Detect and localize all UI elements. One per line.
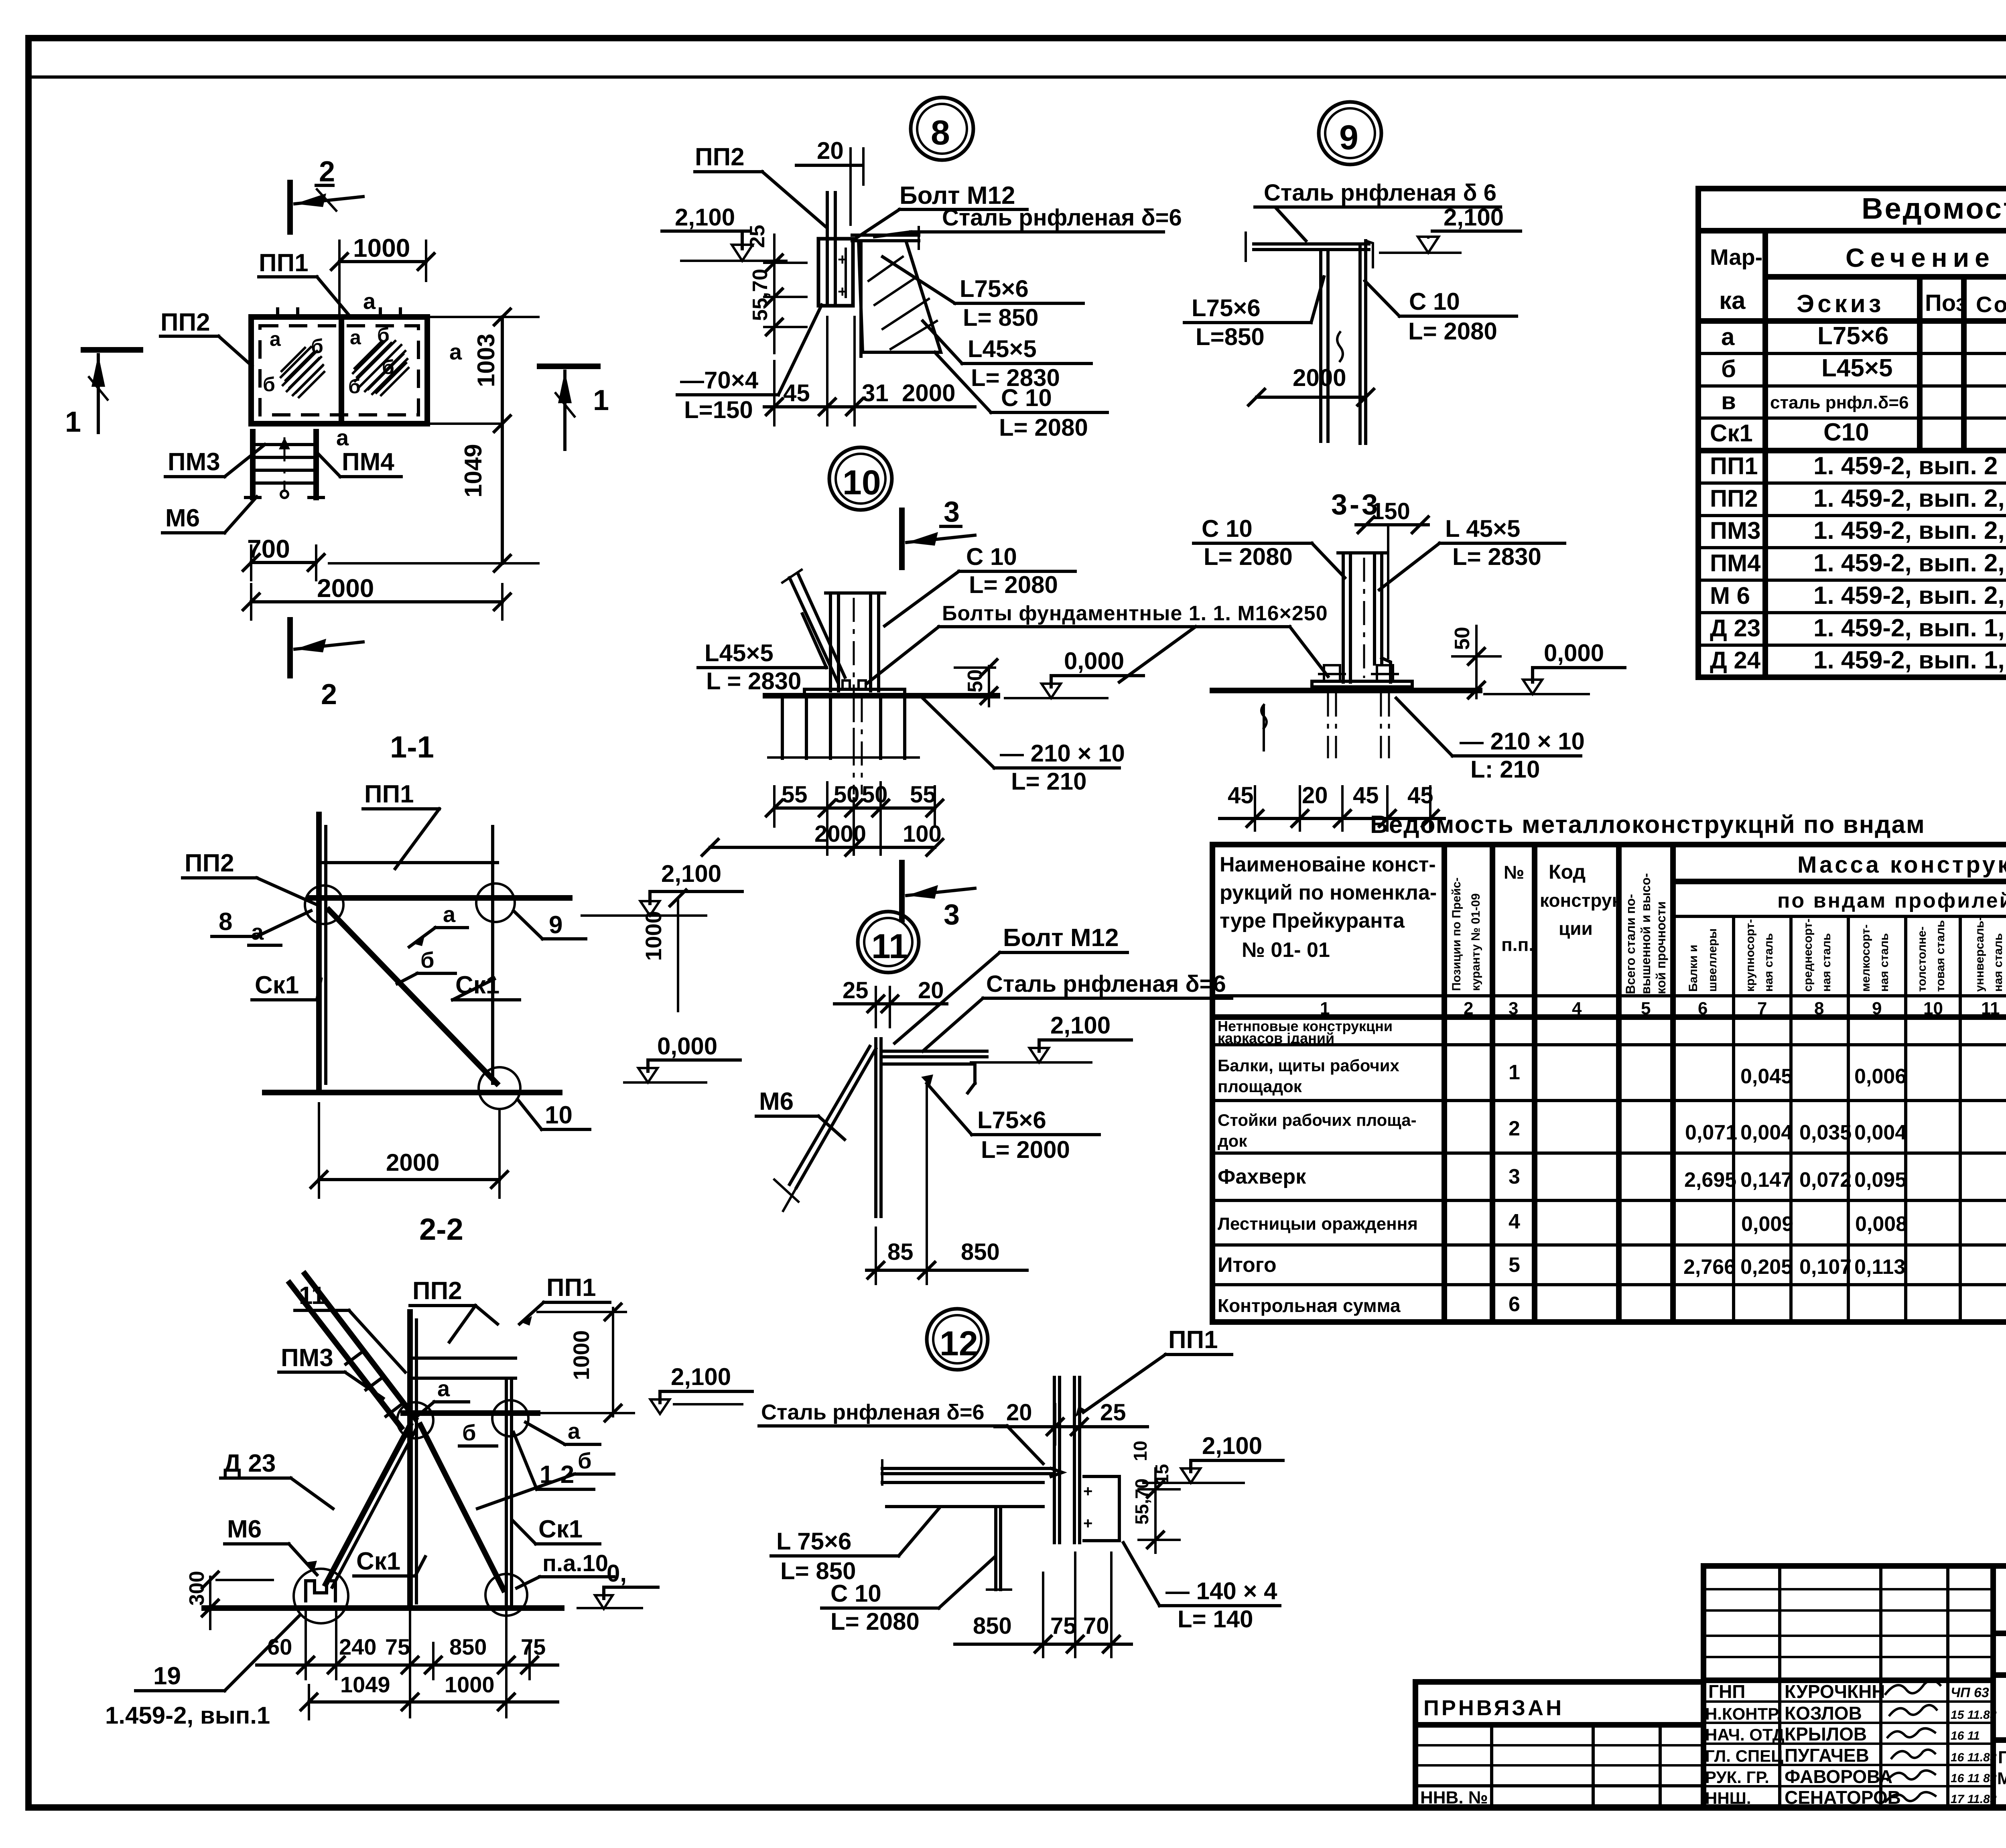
svg-text:10: 10 <box>1923 999 1943 1018</box>
svg-text:каркасов іданий: каркасов іданий <box>1218 1030 1334 1046</box>
detail 9 <box>1184 102 1521 443</box>
header split lines <box>1765 274 2006 280</box>
svg-text:12: 12 <box>940 1324 978 1363</box>
vertical post <box>1053 1377 1056 1543</box>
svg-text:Состав: Состав <box>1976 292 2006 317</box>
data row lines <box>1212 1043 2006 1046</box>
svg-text:куранту № 01-09: куранту № 01-09 <box>1469 894 1482 991</box>
svg-text:25: 25 <box>746 225 769 248</box>
svg-text:Позиции по Прейс-: Позиции по Прейс- <box>1450 877 1463 991</box>
label ПП2 <box>160 309 252 366</box>
detail 8 <box>662 97 1182 441</box>
svg-text:ПП2: ПП2 <box>412 1277 462 1305</box>
svg-text:L45×5: L45×5 <box>968 335 1037 362</box>
svg-text:31: 31 <box>862 380 889 406</box>
svg-text:2: 2 <box>1464 999 1473 1018</box>
table: Ведомость металлоконструкций по видам профилей <box>1212 811 2006 1322</box>
svg-text:ПП2: ПП2 <box>1710 485 1758 512</box>
svg-text:L75×6: L75×6 <box>960 275 1029 302</box>
svg-text:2000: 2000 <box>902 380 955 406</box>
left box Привязан <box>1415 1682 1703 1807</box>
svg-text:0,004: 0,004 <box>1854 1121 1907 1144</box>
svg-text:ПМ4: ПМ4 <box>1710 550 1761 577</box>
plan top edge bolt ticks <box>278 309 400 318</box>
svg-text:С 10: С 10 <box>1202 515 1253 542</box>
node circles <box>397 1402 433 1438</box>
svg-text:+: + <box>838 251 847 268</box>
svg-text:— 210 × 10: — 210 × 10 <box>1460 728 1585 755</box>
floor plate <box>1254 242 1369 246</box>
svg-text:ции: ции <box>1559 918 1593 939</box>
svg-text:9: 9 <box>549 911 562 939</box>
svg-text:ПМ3: ПМ3 <box>168 448 220 476</box>
extra rung <box>410 1377 516 1380</box>
svg-text:КУРОЧКНН: КУРОЧКНН <box>1785 1681 1885 1702</box>
ground <box>1212 688 1480 693</box>
svg-text:70: 70 <box>1083 1613 1109 1639</box>
svg-text:НАЧ. ОТД: НАЧ. ОТД <box>1705 1725 1785 1744</box>
svg-text:1000: 1000 <box>353 234 410 262</box>
dashed inner <box>853 598 855 754</box>
svg-text:М6: М6 <box>759 1088 794 1115</box>
svg-text:55,70: 55,70 <box>1131 1478 1152 1525</box>
svg-text:ПП1: ПП1 <box>1710 453 1758 479</box>
svg-text:КРЫЛОВ: КРЫЛОВ <box>1785 1724 1867 1744</box>
svg-text:а: а <box>336 425 349 450</box>
svg-text:п.а.10: п.а.10 <box>542 1550 608 1576</box>
svg-text:С 10: С 10 <box>1409 288 1460 315</box>
svg-text:Мар-: Мар- <box>1710 244 1762 270</box>
diagonal М6 <box>796 1049 876 1188</box>
svg-text:1003: 1003 <box>473 334 499 387</box>
section mark 3 bottom <box>899 863 905 920</box>
svg-text:туре Прейкуранта: туре Прейкуранта <box>1220 909 1405 932</box>
svg-text:L= 850: L= 850 <box>963 304 1038 331</box>
svg-text:1. 459-2, вып. 2, лнст 75: 1. 459-2, вып. 2, лнст 75 <box>1813 485 2006 512</box>
svg-text:0,008: 0,008 <box>1855 1212 1907 1236</box>
svg-text:20: 20 <box>1006 1399 1032 1426</box>
svg-text:Ск1: Ск1 <box>1710 420 1753 447</box>
svg-text:55: 55 <box>782 782 808 808</box>
svg-text:10: 10 <box>843 463 881 502</box>
svg-text:№: № <box>1504 862 1524 883</box>
svg-text:ГНП: ГНП <box>1708 1681 1745 1702</box>
svg-text:б: б <box>420 947 434 973</box>
channel bracket right <box>1084 1476 1119 1541</box>
svg-text:2,100: 2,100 <box>1444 204 1504 231</box>
svg-text:9: 9 <box>1339 118 1358 157</box>
svg-text:Ведомость: Ведомость <box>1862 192 2006 225</box>
svg-text:0,: 0, <box>607 1560 627 1587</box>
svg-text:М 6: М 6 <box>1710 582 1750 609</box>
base plate <box>804 689 905 696</box>
svg-text:п.п.: п.п. <box>1501 934 1534 955</box>
right panel <box>1993 1566 2006 1807</box>
svg-text:45: 45 <box>1353 782 1379 808</box>
svg-text:вышенной и высо-: вышенной и высо- <box>1639 873 1653 994</box>
svg-text:1. 459-2, вып. 1, лнст 81: 1. 459-2, вып. 1, лнст 81 <box>1813 614 2006 642</box>
plan outline <box>251 317 427 424</box>
svg-text:2,695: 2,695 <box>1684 1168 1736 1192</box>
svg-text:швеллеры: швеллеры <box>1706 928 1719 992</box>
svg-text:ННВ. №: ННВ. № <box>1420 1788 1488 1807</box>
svg-text:L=150: L=150 <box>684 396 753 423</box>
svg-text:толстолне-: толстолне- <box>1915 926 1929 992</box>
dim 1003 (plan right) <box>429 309 538 432</box>
section 3-3 <box>1194 489 1625 831</box>
hatch blob right <box>353 339 408 395</box>
svg-text:ЧП 63: ЧП 63 <box>1951 1685 1989 1700</box>
svg-text:среднесорт-: среднесорт- <box>1801 918 1815 992</box>
svg-text:Код: Код <box>1549 861 1586 883</box>
svg-text:16 11: 16 11 <box>1951 1729 1980 1742</box>
detail 12 bubble <box>927 1309 988 1370</box>
svg-text:ПЛОЩАДКА 1. ВЕДОМОСТЬ: ПЛОЩАДКА 1. ВЕДОМОСТЬ <box>1998 1748 2006 1767</box>
svg-text:ПП2: ПП2 <box>695 143 745 171</box>
svg-text:ная сталь: ная сталь <box>1820 933 1833 992</box>
svg-text:а: а <box>1721 323 1735 350</box>
svg-text:ННШ.: ННШ. <box>1705 1789 1751 1807</box>
detail 11 <box>624 912 1232 1284</box>
anchor dashed <box>853 698 855 794</box>
svg-text:8: 8 <box>219 908 232 936</box>
right post <box>505 1380 508 1605</box>
svg-text:ФАВОРОВА: ФАВОРОВА <box>1785 1766 1892 1787</box>
diagonal brace <box>790 578 838 682</box>
plan view (top-left) <box>246 317 427 498</box>
svg-text:Болт М12: Болт М12 <box>1003 924 1119 952</box>
svg-text:0,107: 0,107 <box>1799 1255 1852 1279</box>
svg-text:ПП1: ПП1 <box>259 249 309 277</box>
svg-text:Сталь рнфленая δ=6: Сталь рнфленая δ=6 <box>986 971 1226 997</box>
svg-text:L 75×6: L 75×6 <box>776 1528 851 1555</box>
svg-text:док: док <box>1218 1131 1247 1150</box>
svg-text:850: 850 <box>973 1613 1012 1639</box>
svg-text:ная сталь: ная сталь <box>1878 933 1891 992</box>
svg-text:Д 24: Д 24 <box>1710 647 1761 674</box>
svg-text:б: б <box>382 356 394 378</box>
ladder below plan <box>250 432 256 498</box>
anchor bolts dashed below <box>1327 692 1329 758</box>
svg-text:3: 3 <box>1509 1165 1520 1188</box>
dashed inner outline <box>260 326 418 415</box>
svg-text:11: 11 <box>871 927 908 966</box>
svg-text:L: 210: L: 210 <box>1470 756 1540 783</box>
svg-text:Стойки рабочих площа-: Стойки рабочих площа- <box>1218 1111 1417 1129</box>
svg-text:2000: 2000 <box>317 574 374 603</box>
svg-text:6: 6 <box>1698 999 1708 1018</box>
svg-text:крупносорт-: крупносорт- <box>1744 919 1757 992</box>
svg-text:Поз: Поз <box>1925 290 1967 316</box>
svg-text:150: 150 <box>1371 498 1410 524</box>
svg-text:М6: М6 <box>227 1515 262 1543</box>
detail 11 bubble <box>858 912 919 973</box>
svg-text:2-2: 2-2 <box>419 1212 463 1247</box>
svg-text:850: 850 <box>961 1239 1000 1265</box>
dim 2000 (plan bottom) <box>243 574 510 619</box>
svg-text:16 11 83: 16 11 83 <box>1951 1772 1997 1785</box>
upper post (ПП2) <box>316 814 322 1093</box>
title block <box>1415 1566 2006 1808</box>
svg-text:а: а <box>443 902 456 927</box>
svg-text:0,045: 0,045 <box>1740 1065 1793 1088</box>
svg-text:б: б <box>578 1448 592 1473</box>
upper rungs between posts <box>410 1357 516 1360</box>
small upper rows <box>1703 1588 1993 1590</box>
svg-text:55: 55 <box>910 782 936 808</box>
svg-text:а: а <box>449 339 462 364</box>
svg-text:5: 5 <box>1509 1253 1520 1277</box>
diagonals <box>420 1425 504 1590</box>
svg-text:ПП2: ПП2 <box>160 309 210 336</box>
svg-text:Эскиз: Эскиз <box>1797 290 1884 318</box>
title row line <box>1698 228 2006 234</box>
svg-text:Всего стали по-: Всего стали по- <box>1623 894 1638 994</box>
foundation hatch <box>782 696 905 758</box>
svg-text:КОЗЛОВ: КОЗЛОВ <box>1785 1703 1862 1724</box>
svg-text:Сечение: Сечение <box>1846 243 1995 272</box>
svg-text:25: 25 <box>843 977 869 1003</box>
svg-text:Болты фундаментные 1. 1. М16×: Болты фундаментные 1. 1. М16×250 <box>942 602 1328 625</box>
svg-text:2,100: 2,100 <box>675 204 735 231</box>
svg-text:7: 7 <box>1757 999 1767 1018</box>
svg-text:ГЛ. СПЕЦ: ГЛ. СПЕЦ <box>1705 1746 1783 1765</box>
diagonal <box>329 910 497 1083</box>
svg-text:45: 45 <box>1228 782 1254 808</box>
svg-text:С 10: С 10 <box>966 543 1017 570</box>
svg-text:сталь рнфл.δ=6: сталь рнфл.δ=6 <box>1770 393 1909 412</box>
svg-text:60: 60 <box>267 1634 292 1659</box>
signatures squiggles <box>1886 1680 1940 1694</box>
svg-text:кой прочности: кой прочности <box>1654 902 1668 995</box>
svg-text:ПУГАЧЕВ: ПУГАЧЕВ <box>1785 1745 1869 1766</box>
verticals full height <box>1442 845 1447 1322</box>
svg-text:ная сталь: ная сталь <box>1762 933 1775 992</box>
svg-text:100: 100 <box>903 821 942 847</box>
section mark 2 (bottom) <box>290 620 363 711</box>
svg-text:Ск1: Ск1 <box>356 1547 400 1575</box>
svg-text:2: 2 <box>319 156 335 188</box>
svg-text:L= 2080: L= 2080 <box>999 414 1088 441</box>
label ПМ4 <box>318 448 401 477</box>
svg-text:Д 23: Д 23 <box>1710 615 1760 642</box>
svg-text:Масса конструкций, т: Масса конструкций, т <box>1797 852 2006 878</box>
svg-text:1. 459-2, вып. 1, лнст 81: 1. 459-2, вып. 1, лнст 81 <box>1813 646 2006 674</box>
svg-text:1049: 1049 <box>340 1672 390 1697</box>
svg-text:а: а <box>437 1376 450 1401</box>
svg-text:С10: С10 <box>1823 418 1869 446</box>
svg-text:1: 1 <box>65 406 81 438</box>
svg-text:L= 2080: L= 2080 <box>1408 318 1497 345</box>
svg-text:1.459-2, вып.1: 1.459-2, вып.1 <box>105 1702 270 1729</box>
svg-text:L= 140: L= 140 <box>1178 1606 1253 1633</box>
svg-text:8: 8 <box>931 114 950 152</box>
label ПП1 <box>259 249 350 316</box>
svg-text:Д 23: Д 23 <box>223 1450 276 1477</box>
svg-text:1000: 1000 <box>569 1330 594 1380</box>
svg-text:10: 10 <box>1130 1441 1151 1461</box>
break mark <box>1337 332 1343 361</box>
svg-text:0,205: 0,205 <box>1740 1255 1793 1279</box>
svg-text:2,100: 2,100 <box>1202 1432 1262 1459</box>
svg-text:0,147: 0,147 <box>1740 1168 1793 1192</box>
svg-text:Ск1: Ск1 <box>538 1515 583 1543</box>
table: Ведомость элементов <box>1698 189 2006 677</box>
svg-text:L75×6: L75×6 <box>1192 294 1261 321</box>
svg-text:а: а <box>270 328 281 350</box>
svg-text:L= 210: L= 210 <box>1011 768 1086 795</box>
floor bracket <box>881 1050 987 1053</box>
svg-text:а: а <box>363 288 376 314</box>
section mark 1 (left) <box>65 350 140 438</box>
svg-text:0,000: 0,000 <box>1064 648 1124 674</box>
vertical support <box>994 1507 997 1590</box>
svg-text:Лестницыи ораждення: Лестницыи ораждення <box>1218 1214 1418 1234</box>
svg-text:+: + <box>1083 1515 1092 1532</box>
plan top edge bolt ticks <box>278 309 400 318</box>
svg-text:б: б <box>1721 355 1736 382</box>
svg-text:55,70: 55,70 <box>749 269 772 321</box>
svg-text:ПП1: ПП1 <box>364 780 414 808</box>
svg-text:б: б <box>263 373 275 396</box>
svg-text:Сталь рнфленая δ 6: Сталь рнфленая δ 6 <box>1264 180 1496 206</box>
label ПМ3 <box>165 445 265 477</box>
dashed center <box>1363 558 1365 678</box>
svg-text:СЕНАТОРОВ: СЕНАТОРОВ <box>1785 1787 1901 1808</box>
svg-text:2,100: 2,100 <box>671 1363 731 1390</box>
svg-text:0,035: 0,035 <box>1799 1121 1852 1144</box>
svg-text:3: 3 <box>1509 999 1518 1018</box>
base <box>1312 681 1412 687</box>
svg-text:0,095: 0,095 <box>1854 1168 1907 1192</box>
svg-text:в: в <box>1721 388 1736 414</box>
svg-text:2: 2 <box>321 678 337 711</box>
svg-text:0,000: 0,000 <box>1544 640 1604 666</box>
svg-text:L45×5: L45×5 <box>1821 354 1893 382</box>
svg-text:Балки и: Балки и <box>1687 944 1700 992</box>
svg-text:а: а <box>251 919 264 944</box>
top beam <box>309 895 570 901</box>
svg-text:Ск1: Ск1 <box>255 971 299 999</box>
column <box>1342 553 1345 682</box>
central stamp outer <box>1703 1566 1993 1807</box>
svg-text:1-1: 1-1 <box>390 730 434 764</box>
svg-text:ПП2: ПП2 <box>185 849 234 877</box>
name rows <box>1703 1700 1993 1703</box>
svg-text:1000: 1000 <box>641 911 666 961</box>
svg-text:20: 20 <box>817 137 844 164</box>
svg-text:850: 850 <box>449 1634 487 1659</box>
svg-text:конструк: конструк <box>1540 890 1621 911</box>
svg-text:75: 75 <box>1050 1613 1076 1639</box>
svg-text:19: 19 <box>153 1662 181 1690</box>
svg-text:Сталь рнфленая δ=6: Сталь рнфленая δ=6 <box>761 1400 985 1424</box>
ground <box>265 1090 560 1095</box>
svg-text:10: 10 <box>545 1101 573 1129</box>
svg-text:85: 85 <box>887 1239 914 1265</box>
svg-text:уннверсаль-: уннверсаль- <box>1973 917 1986 992</box>
top beam <box>403 1410 538 1416</box>
svg-text:L45×5: L45×5 <box>705 640 774 666</box>
svg-text:ПП1: ПП1 <box>546 1274 596 1302</box>
svg-text:рукций по номенкла-: рукций по номенкла- <box>1220 881 1437 904</box>
svg-text:—70×4: —70×4 <box>680 367 759 394</box>
svg-text:ка: ка <box>1719 287 1746 315</box>
vertical channel <box>1319 251 1322 441</box>
svg-text:мелкосорт-: мелкосорт- <box>1859 924 1872 992</box>
channel block <box>818 239 853 306</box>
svg-text:б: б <box>377 324 390 346</box>
svg-text:L75×6: L75×6 <box>977 1107 1046 1133</box>
floor plate <box>852 234 919 237</box>
svg-text:1: 1 <box>1320 999 1330 1018</box>
svg-text:0,072: 0,072 <box>1799 1168 1852 1192</box>
svg-text:С 10: С 10 <box>1001 384 1052 411</box>
svg-text:1000: 1000 <box>445 1672 495 1697</box>
plan top edge bolt ticks <box>278 309 400 318</box>
svg-text:L= 2000: L= 2000 <box>981 1136 1070 1163</box>
svg-text:1049: 1049 <box>460 444 487 498</box>
svg-text:17 11.83: 17 11.83 <box>1951 1793 1997 1806</box>
svg-text:ПМ4: ПМ4 <box>342 448 394 476</box>
svg-text:L= 2830: L= 2830 <box>1452 543 1541 570</box>
svg-text:1: 1 <box>593 384 609 416</box>
detail 8 bubble <box>911 97 973 160</box>
svg-text:2,100: 2,100 <box>1050 1012 1111 1039</box>
svg-text:25: 25 <box>1100 1399 1126 1426</box>
svg-text:0,004: 0,004 <box>1740 1121 1793 1144</box>
svg-text:1. 459-2, вып. 2 , лнст 75: 1. 459-2, вып. 2 , лнст 75 <box>1813 452 2006 480</box>
header horizontals <box>1673 879 2006 884</box>
М6 anchor detail in bottom-left circle <box>306 1581 335 1601</box>
svg-text:— 140 × 4: — 140 × 4 <box>1165 1578 1277 1604</box>
svg-text:площадок: площадок <box>1218 1077 1302 1096</box>
svg-text:ПП1: ПП1 <box>1168 1326 1218 1354</box>
bolts on plate <box>838 680 855 689</box>
svg-text:0,006: 0,006 <box>1854 1065 1907 1088</box>
svg-text:50: 50 <box>1451 627 1474 650</box>
dim 700 <box>243 534 324 580</box>
node circles <box>305 885 343 924</box>
svg-text:МЕТАЛЛОКОНСТРУКЦИЙ ПО ВНДАМ: МЕТАЛЛОКОНСТРУКЦИЙ ПО ВНДАМ <box>1997 1769 2006 1788</box>
center post <box>407 1312 413 1608</box>
svg-text:ПМ3: ПМ3 <box>281 1344 333 1372</box>
svg-text:20: 20 <box>918 977 944 1003</box>
svg-text:а: а <box>568 1418 581 1444</box>
svg-text:2,100: 2,100 <box>661 860 721 887</box>
dim 1000 (plan top) <box>331 234 434 317</box>
svg-text:16 11.83: 16 11.83 <box>1951 1751 1997 1764</box>
detail 10 bubble <box>829 447 892 510</box>
svg-text:L=850: L=850 <box>1196 323 1265 350</box>
section 2-2 <box>105 1212 742 1729</box>
post double line <box>826 193 829 306</box>
svg-text:+: + <box>838 283 847 301</box>
detail 10 <box>698 447 1328 931</box>
svg-text:15 11.83: 15 11.83 <box>1951 1708 1997 1722</box>
svg-text:20: 20 <box>1302 782 1328 808</box>
svg-text:75: 75 <box>521 1634 546 1659</box>
header verticals <box>1762 231 1768 677</box>
section mark 2 (top) <box>290 156 363 232</box>
svg-text:РУК. ГР.: РУК. ГР. <box>1705 1768 1769 1787</box>
stair rungs <box>346 1351 403 1416</box>
floor <box>882 1467 1051 1470</box>
detail 9 bubble <box>1319 102 1381 164</box>
svg-text:75: 75 <box>385 1634 410 1659</box>
svg-text:L= 2080: L= 2080 <box>830 1608 920 1635</box>
svg-text:2: 2 <box>1509 1117 1520 1140</box>
